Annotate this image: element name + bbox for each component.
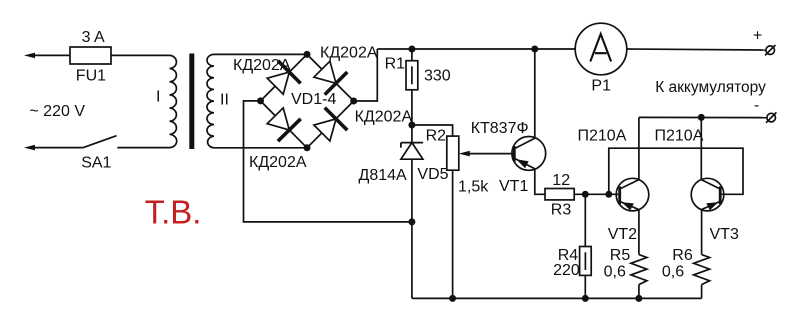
node R1 top (408, 46, 415, 53)
switch SA1 (83, 136, 116, 148)
ammeter P1 (575, 23, 627, 75)
svg-text:К аккумулятору: К аккумулятору (655, 79, 766, 96)
node R5 bottom (635, 295, 642, 302)
wire secondary bottom to bridge (214, 147, 307, 149)
svg-text:1,5k: 1,5k (458, 179, 489, 196)
bridge edge top-left (261, 54, 308, 101)
svg-text:Т.В.: Т.В. (145, 194, 202, 231)
svg-text:R5: R5 (610, 247, 631, 264)
wire top rail left (377, 48, 575, 50)
svg-text:R3: R3 (551, 202, 572, 219)
wire VT3 collector to minus rail (700, 117, 702, 179)
bridge edge bottom-right (307, 101, 354, 148)
svg-text:КД202А: КД202А (355, 109, 413, 126)
wire VT3 emitter to R6 (701, 210, 703, 255)
svg-text:12: 12 (552, 172, 570, 189)
wire VT2 emitter to R5 (638, 210, 640, 255)
svg-text:VD1-4: VD1-4 (291, 91, 336, 108)
svg-text:I: I (156, 89, 160, 106)
wire base tie loop VT2-VT3 (609, 148, 743, 194)
resistor R5 (631, 255, 647, 299)
diode VD2 (top-right) (314, 61, 347, 94)
transformer secondary winding II (207, 54, 214, 147)
bridge edge bottom-left (261, 101, 308, 148)
transistor VT2 (616, 178, 649, 211)
terminal plus (765, 45, 775, 55)
wire R2 top lead (412, 125, 453, 136)
wire VT1 collector to top rail (534, 49, 536, 138)
svg-text:КД202А: КД202А (320, 45, 378, 62)
svg-text:VT1: VT1 (499, 178, 528, 195)
svg-text:VT2: VT2 (608, 226, 637, 243)
wire R3 to VT2 base (574, 193, 620, 195)
node R4 bottom (582, 295, 589, 302)
wire minus rail (639, 116, 767, 118)
zener diode VD5 (401, 125, 423, 298)
svg-text:VT3: VT3 (710, 226, 739, 243)
potentiometer R2 (447, 136, 459, 170)
svg-text:КТ837Ф: КТ837Ф (471, 120, 529, 137)
wire AC line 2 (bottom mains lead) (24, 145, 170, 151)
svg-text:II: II (220, 92, 229, 109)
wire bridge plus to top rail (354, 49, 378, 101)
node bridge bottom vertex (304, 144, 311, 151)
svg-text:FU1: FU1 (76, 68, 106, 85)
svg-text:R2: R2 (426, 127, 447, 144)
svg-text:0,6: 0,6 (604, 264, 626, 281)
transistor VT3 (691, 178, 724, 211)
resistor R4 (580, 194, 592, 298)
diode VD4 (bottom-right) (314, 108, 347, 141)
node R1 bottom (408, 122, 415, 129)
diode VD1 (top-left) (267, 61, 300, 94)
resistor R3 (545, 189, 574, 200)
transistor VT1 (512, 137, 546, 171)
node VD5 / bridge minus junction (408, 218, 415, 225)
svg-text:220: 220 (553, 262, 580, 279)
wire VT2 collector to minus rail (638, 117, 640, 179)
svg-text:3 A: 3 A (82, 29, 105, 46)
resistor R6 (694, 255, 710, 299)
svg-text:330: 330 (424, 68, 451, 85)
svg-text:-: - (754, 97, 759, 114)
node VT1 collector junction (531, 46, 538, 53)
node bridge top vertex (304, 51, 311, 58)
svg-text:~ 220 V: ~ 220 V (29, 103, 85, 120)
node R2 bottom (449, 295, 456, 302)
node R3-R4 junction (582, 191, 589, 198)
wire R2 bottom lead (452, 170, 454, 298)
wire secondary top to bridge (214, 53, 307, 55)
bridge edge top-right (307, 54, 354, 101)
svg-text:П210А: П210А (578, 127, 627, 144)
svg-text:КД202А: КД202А (249, 154, 307, 171)
svg-text:VD5: VD5 (417, 166, 448, 183)
node bridge right vertex (350, 98, 357, 105)
transformer core (189, 54, 194, 150)
svg-text:P1: P1 (591, 77, 611, 94)
wire R2 wiper to VT1 base (459, 151, 515, 157)
node bridge left vertex (257, 97, 264, 104)
svg-text:КД202А: КД202А (233, 57, 291, 74)
wire VT1 emitter to R3 (535, 169, 545, 195)
wire AC line 1 (top mains lead) (24, 53, 170, 59)
resistor R1 (406, 49, 418, 125)
svg-text:0,6: 0,6 (662, 264, 684, 281)
fuse FU1 (70, 47, 111, 64)
terminal minus (766, 112, 776, 122)
wire bridge minus routing (244, 101, 412, 222)
svg-text:Д814А: Д814А (359, 167, 408, 184)
svg-text:R1: R1 (385, 56, 406, 73)
wire top rail right (627, 49, 766, 50)
svg-text:R6: R6 (672, 247, 693, 264)
diode VD3 (bottom-left) (267, 108, 301, 141)
wire bottom rail (412, 297, 702, 299)
node VT2 base junction (605, 191, 612, 198)
svg-text:+: + (753, 28, 762, 45)
transformer primary winding I (170, 55, 177, 147)
node VT3 collector junction (698, 114, 705, 121)
svg-text:SA1: SA1 (81, 155, 111, 172)
svg-text:П210А: П210А (655, 127, 704, 144)
